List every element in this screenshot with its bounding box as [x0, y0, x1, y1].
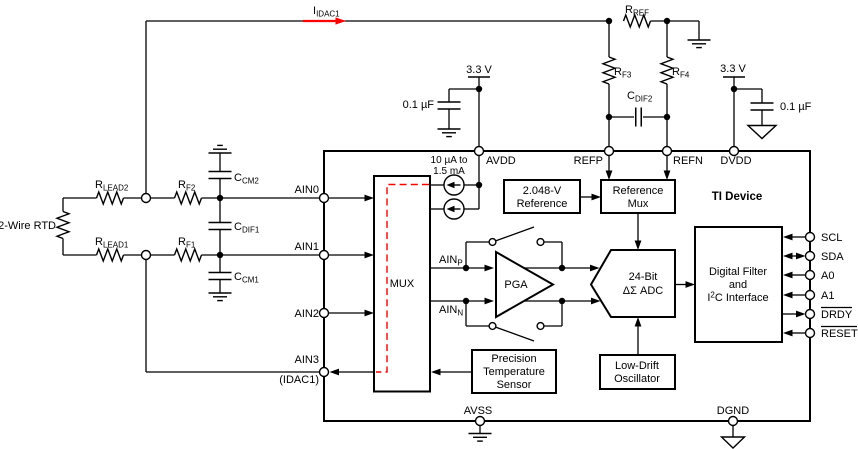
svg-text:2-Wire RTD: 2-Wire RTD	[0, 220, 56, 232]
svg-text:I2C Interface: I2C Interface	[707, 291, 768, 305]
svg-text:10 µA to: 10 µA to	[431, 155, 468, 166]
svg-text:DVDD: DVDD	[720, 155, 751, 167]
svg-text:AIN0: AIN0	[295, 184, 319, 196]
svg-text:Sensor: Sensor	[497, 379, 532, 391]
svg-text:0.1 µF: 0.1 µF	[403, 99, 435, 111]
svg-text:SDA: SDA	[821, 251, 844, 263]
svg-text:Reference: Reference	[613, 185, 664, 197]
svg-text:DGND: DGND	[717, 405, 749, 417]
svg-text:3.3 V: 3.3 V	[720, 63, 746, 75]
svg-text:REFP: REFP	[574, 155, 603, 167]
svg-text:Reference: Reference	[517, 198, 568, 210]
svg-text:Mux: Mux	[628, 198, 649, 210]
svg-text:ΔΣ ADC: ΔΣ ADC	[623, 285, 663, 297]
svg-text:SCL: SCL	[821, 232, 842, 244]
svg-text:24-Bit: 24-Bit	[629, 271, 658, 283]
svg-text:A0: A0	[821, 270, 834, 282]
svg-text:AIN2: AIN2	[295, 308, 319, 320]
svg-text:TI Device: TI Device	[712, 191, 763, 203]
svg-text:PGA: PGA	[504, 279, 528, 291]
svg-text:MUX: MUX	[390, 278, 415, 290]
svg-text:DRDY: DRDY	[821, 309, 853, 321]
svg-text:AIN3: AIN3	[295, 354, 319, 366]
svg-text:AVDD: AVDD	[486, 155, 516, 167]
svg-text:0.1 µF: 0.1 µF	[780, 101, 812, 113]
svg-text:2.048-V: 2.048-V	[523, 185, 562, 197]
svg-text:Digital Filter: Digital Filter	[709, 266, 767, 278]
svg-text:RESET: RESET	[821, 328, 858, 340]
svg-text:1.5 mA: 1.5 mA	[433, 166, 465, 177]
svg-text:3.3 V: 3.3 V	[466, 64, 492, 76]
svg-text:Temperature: Temperature	[483, 366, 545, 378]
svg-text:AIN1: AIN1	[295, 241, 319, 253]
svg-text:Precision: Precision	[491, 353, 536, 365]
svg-text:REFN: REFN	[673, 155, 703, 167]
svg-text:Low-Drift: Low-Drift	[615, 360, 659, 372]
svg-text:(IDAC1): (IDAC1)	[279, 374, 319, 386]
svg-text:AVSS: AVSS	[464, 405, 493, 417]
svg-text:and: and	[729, 279, 747, 291]
svg-text:A1: A1	[821, 290, 834, 302]
svg-text:Oscillator: Oscillator	[614, 373, 660, 385]
